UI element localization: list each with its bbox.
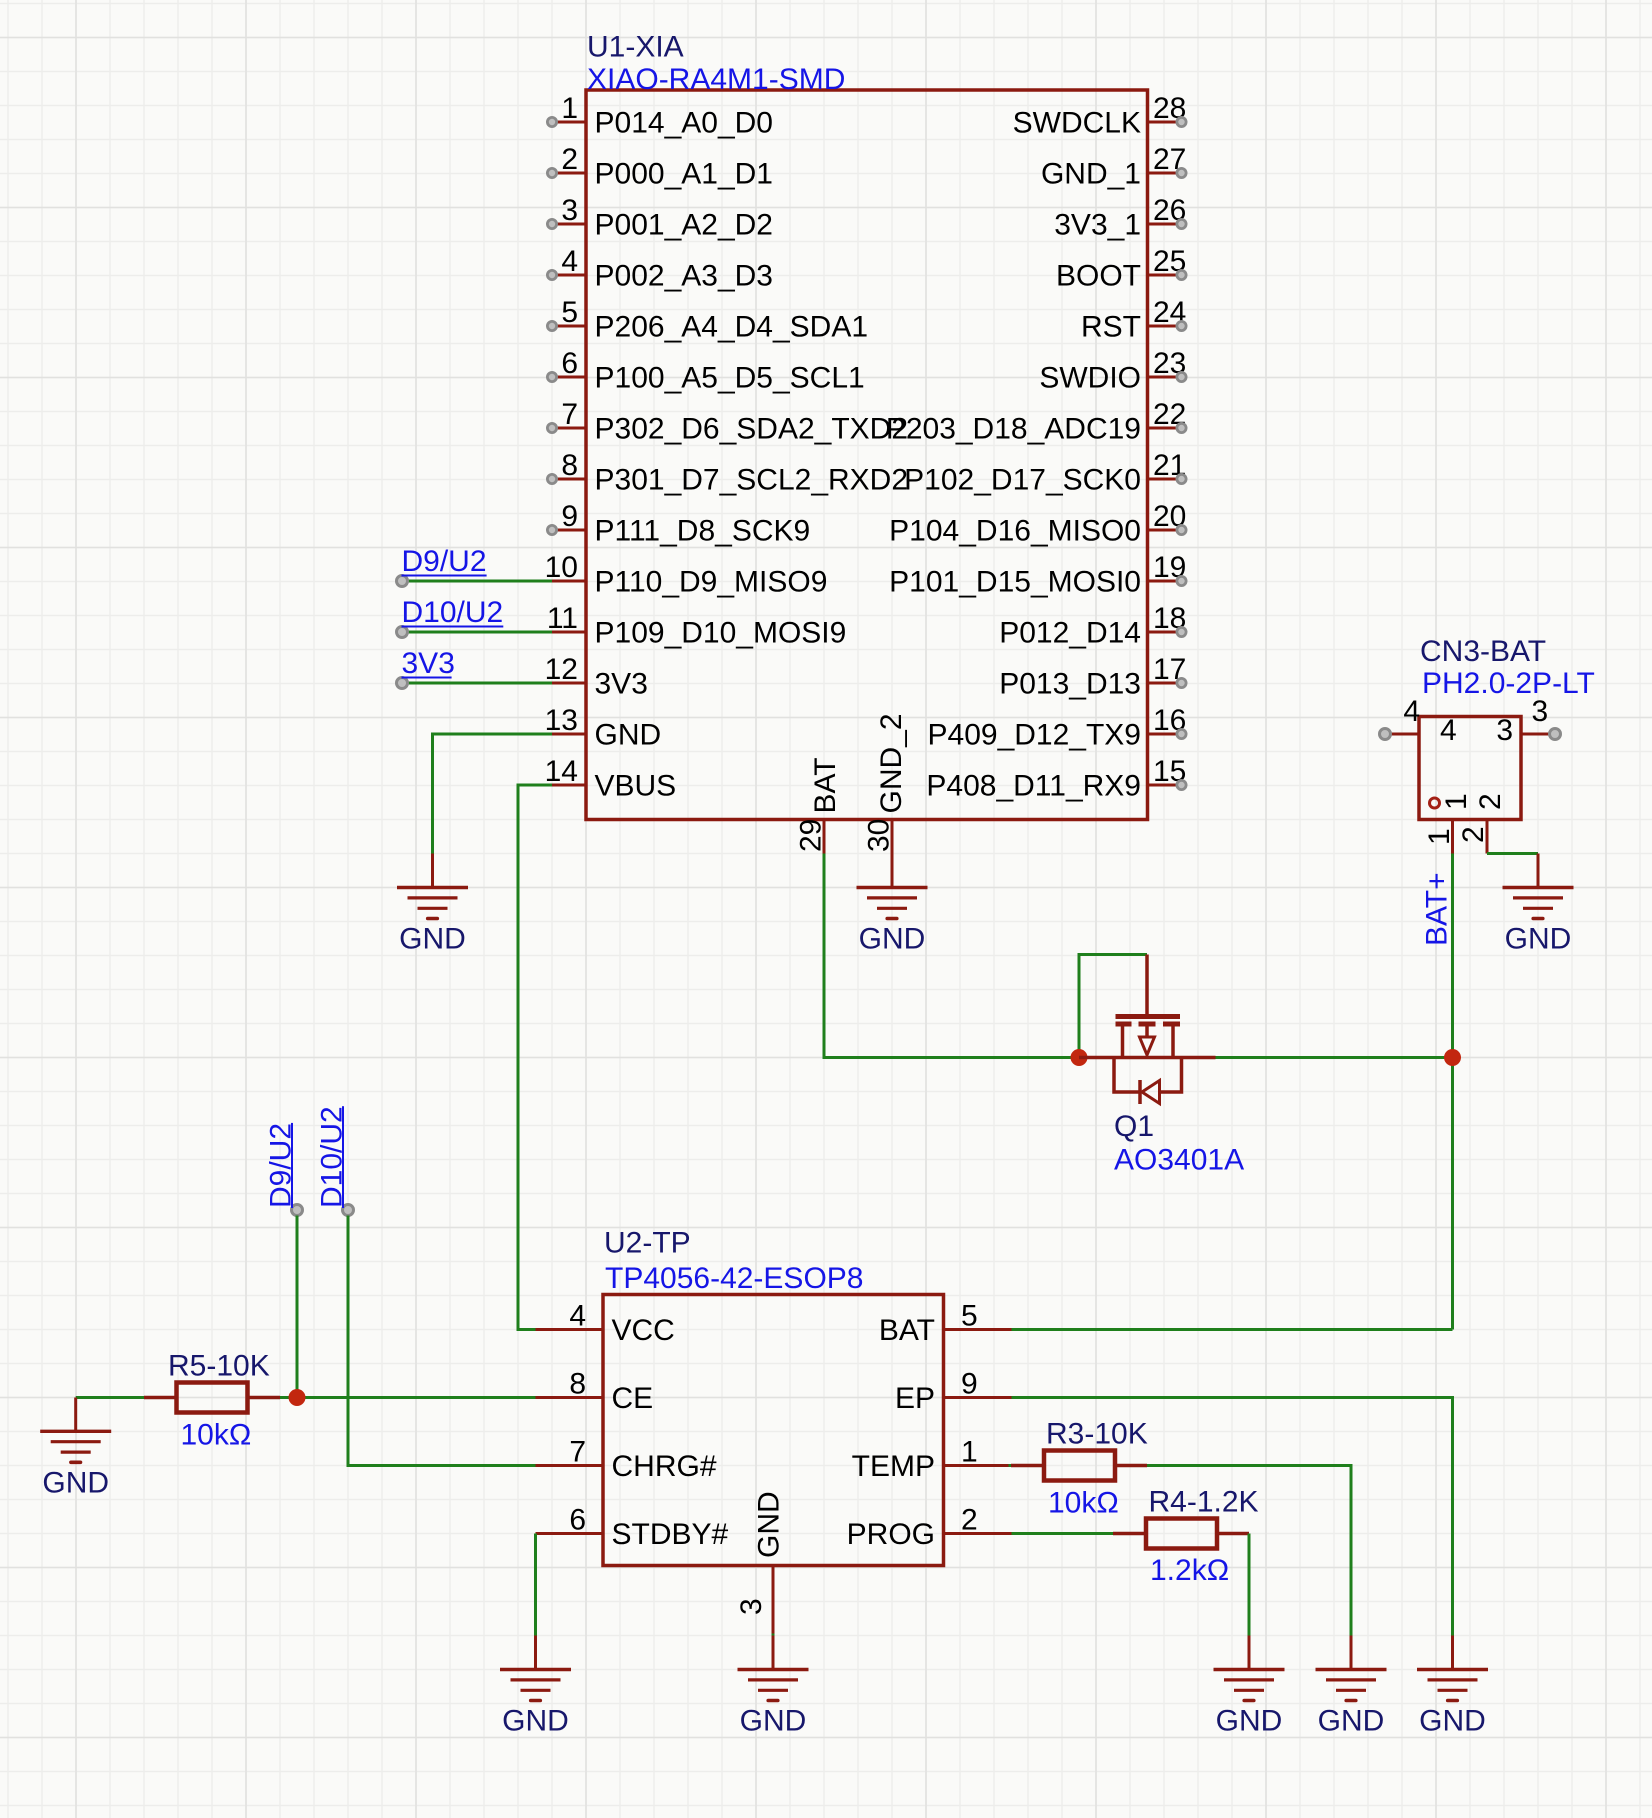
U1 pin 11 (P109_D10_MOSI9) (547, 602, 846, 650)
svg-text:GND: GND (399, 923, 466, 956)
U2 pin 4 (VCC) (536, 1300, 675, 1348)
svg-text:P302_D6_SDA2_TXD2: P302_D6_SDA2_TXD2 (595, 413, 909, 446)
svg-text:2: 2 (561, 143, 578, 176)
net label D10/U2 at U1 pin (397, 596, 553, 638)
svg-text:3V3: 3V3 (595, 668, 648, 701)
svg-text:7: 7 (569, 1436, 586, 1469)
svg-text:STDBY#: STDBY# (612, 1518, 729, 1551)
U1 pin 16 (P409_D12_TX9) (928, 704, 1187, 752)
svg-text:BAT: BAT (809, 757, 842, 813)
ground (U1 pin 13) (397, 854, 468, 956)
svg-text:P001_A2_D2: P001_A2_D2 (595, 209, 773, 242)
wire U2 BAT to BAT+ vertical (1012, 1328, 1453, 1331)
wire Q1 drain to BAT+ node (1216, 1056, 1453, 1059)
IC U1 body (XIAO-RA4M1-SMD) (586, 90, 1148, 820)
svg-text:29: 29 (795, 819, 828, 852)
U1 pin 30 (GND_2) (863, 713, 909, 853)
svg-text:6: 6 (561, 347, 578, 380)
svg-text:P203_D18_ADC19: P203_D18_ADC19 (886, 413, 1141, 446)
svg-text:P012_D14: P012_D14 (999, 617, 1141, 650)
net label D9/U2 (to CE net) (265, 1123, 303, 1398)
svg-text:XIAO-RA4M1-SMD: XIAO-RA4M1-SMD (587, 63, 845, 96)
svg-text:P101_D15_MOSI0: P101_D15_MOSI0 (889, 566, 1141, 599)
svg-text:GND: GND (1419, 1705, 1486, 1738)
svg-text:VBUS: VBUS (595, 770, 677, 803)
svg-text:CE: CE (612, 1382, 654, 1415)
svg-text:P206_A4_D4_SDA1: P206_A4_D4_SDA1 (595, 311, 869, 344)
U1 pin 25 (BOOT) (1056, 245, 1186, 293)
svg-text:D10/U2: D10/U2 (402, 596, 504, 629)
wire BAT+ CN3 pin1 down to U2 BAT (1451, 854, 1454, 1330)
connector CN3 (PH2.0-2P-LT) (1380, 695, 1561, 854)
svg-text:GND: GND (1216, 1705, 1283, 1738)
CN3 part name PH2.0-2P-LT (1422, 667, 1595, 700)
transistor Q1 (AO3401A P-MOSFET) (1079, 955, 1216, 1105)
svg-text:4: 4 (1440, 714, 1457, 747)
U1 pin 19 (P101_D15_MOSI0) (889, 551, 1186, 599)
svg-text:BAT+: BAT+ (1421, 872, 1454, 946)
svg-text:PROG: PROG (847, 1518, 935, 1551)
net label BAT+ (1421, 872, 1454, 946)
resistor R3 (1011, 1451, 1147, 1481)
resistor R5 (144, 1383, 280, 1413)
svg-text:D9/U2: D9/U2 (402, 545, 487, 578)
wire VBUS U1 pin14 to U2 VCC (518, 785, 552, 1330)
R4 designator R4-1.2K (1149, 1486, 1259, 1519)
junction BAT+ node (1444, 1049, 1461, 1066)
svg-text:U2-TP: U2-TP (604, 1227, 691, 1260)
svg-text:PH2.0-2P-LT: PH2.0-2P-LT (1422, 667, 1595, 700)
wire Q1 gate loop (1079, 955, 1147, 1058)
net label D10/U2 (to CHRG# net) (316, 1106, 536, 1465)
Q1 part value AO3401A (1114, 1144, 1244, 1177)
IC U2 body (TP4056-42-ESOP8) (603, 1295, 944, 1566)
svg-text:BAT: BAT (879, 1314, 935, 1347)
junction BAT/Q1 gate node (1071, 1049, 1088, 1066)
svg-text:P111_D8_SCK9: P111_D8_SCK9 (595, 515, 811, 548)
svg-text:9: 9 (561, 500, 578, 533)
svg-text:GND: GND (859, 923, 926, 956)
U1 pin 26 (3V3_1) (1054, 194, 1186, 242)
wire CN3 pin2 to ground (1487, 852, 1538, 855)
U1 pin 7 (P302_D6_SDA2_TXD2) (547, 398, 908, 446)
wire R4 to ground (1248, 1534, 1251, 1636)
U1 pin 9 (P111_D8_SCK9) (547, 500, 810, 548)
U1 pin 2 (P000_A1_D1) (547, 143, 773, 191)
svg-text:2: 2 (1457, 826, 1490, 843)
U1 pin 10 (P110_D9_MISO9) (545, 551, 828, 599)
CN3 reference designator CN3-BAT (1420, 635, 1546, 668)
svg-text:R3-10K: R3-10K (1046, 1418, 1148, 1451)
svg-text:3V3: 3V3 (402, 647, 455, 680)
svg-text:R4-1.2K: R4-1.2K (1149, 1486, 1259, 1519)
svg-text:P000_A1_D1: P000_A1_D1 (595, 158, 773, 191)
svg-text:GND: GND (1505, 923, 1572, 956)
svg-text:7: 7 (561, 398, 578, 431)
wire R3 to ground (1147, 1466, 1351, 1636)
U1 pin 23 (SWDIO) (1039, 347, 1186, 395)
svg-text:P109_D10_MOSI9: P109_D10_MOSI9 (595, 617, 847, 650)
R4 value 1.2kΩ (1150, 1554, 1229, 1587)
svg-text:GND: GND (42, 1466, 109, 1499)
svg-text:14: 14 (545, 755, 578, 788)
U2 pin 8 (CE) (536, 1368, 654, 1416)
U2 pin 1 (TEMP) (852, 1436, 1012, 1484)
svg-text:1.2kΩ: 1.2kΩ (1150, 1554, 1229, 1587)
ground (R4) (1214, 1636, 1285, 1738)
svg-text:4: 4 (1403, 695, 1420, 728)
U1 pin 29 (BAT) (795, 757, 843, 853)
svg-text:2: 2 (961, 1504, 978, 1537)
wire U1 pin13 GND to ground (433, 734, 553, 854)
svg-text:R5-10K: R5-10K (168, 1350, 270, 1383)
svg-text:CHRG#: CHRG# (612, 1450, 717, 1483)
wire R5 to ground corner (76, 1396, 144, 1399)
svg-text:1: 1 (961, 1436, 978, 1469)
U1 pin 5 (P206_A4_D4_SDA1) (547, 296, 868, 344)
U1 pin 8 (P301_D7_SCL2_RXD2) (547, 449, 908, 497)
ground (R3) (1316, 1636, 1387, 1738)
svg-text:P014_A0_D0: P014_A0_D0 (595, 107, 773, 140)
svg-text:4: 4 (569, 1300, 586, 1333)
ground (U1 pin 30) (857, 854, 928, 956)
Q1 reference designator (1114, 1110, 1154, 1143)
U2 pin 3 (GND) (735, 1491, 786, 1637)
R3 value 10kΩ (1048, 1487, 1119, 1520)
svg-text:3V3_1: 3V3_1 (1054, 209, 1141, 242)
resistor R4 (1113, 1519, 1249, 1549)
svg-text:P408_D11_RX9: P408_D11_RX9 (926, 770, 1141, 803)
U1 pin 22 (P203_D18_ADC19) (886, 398, 1187, 446)
U1 pin 1 (P014_A0_D0) (547, 92, 773, 140)
svg-text:P100_A5_D5_SCL1: P100_A5_D5_SCL1 (595, 362, 865, 395)
net label 3V3 at U1 pin (397, 647, 553, 689)
svg-text:GND: GND (595, 719, 662, 752)
svg-text:GND_1: GND_1 (1041, 158, 1141, 191)
ground (U2 pin 3) (738, 1636, 809, 1738)
wire U2 EP to ground (1012, 1398, 1453, 1636)
wire PROG to R4 (1012, 1532, 1114, 1535)
svg-text:P013_D13: P013_D13 (999, 668, 1141, 701)
svg-text:CN3-BAT: CN3-BAT (1420, 635, 1546, 668)
svg-text:P409_D12_TX9: P409_D12_TX9 (928, 719, 1142, 752)
svg-text:GND: GND (1318, 1705, 1385, 1738)
net label D9/U2 at U1 pin (397, 545, 553, 587)
svg-text:3: 3 (1496, 714, 1513, 747)
svg-text:GND: GND (740, 1705, 807, 1738)
svg-text:U1-XIA: U1-XIA (587, 31, 684, 64)
U1 pin 20 (P104_D16_MISO0) (889, 500, 1186, 548)
svg-text:TEMP: TEMP (852, 1450, 935, 1483)
U2 pin 2 (PROG) (847, 1504, 1012, 1552)
svg-text:12: 12 (545, 653, 578, 686)
wire TEMP to R3 (1009, 1464, 1014, 1467)
svg-text:P104_D16_MISO0: P104_D16_MISO0 (889, 515, 1141, 548)
svg-text:AO3401A: AO3401A (1114, 1144, 1244, 1177)
svg-text:2: 2 (1474, 793, 1507, 810)
svg-text:8: 8 (569, 1368, 586, 1401)
svg-text:P110_D9_MISO9: P110_D9_MISO9 (595, 566, 828, 599)
wire R5 to junction (280, 1396, 297, 1399)
ground (R5 left) (40, 1398, 111, 1500)
U1 pin 4 (P002_A3_D3) (547, 245, 773, 293)
R3 designator R3-10K (1046, 1418, 1148, 1451)
svg-text:P002_A3_D3: P002_A3_D3 (595, 260, 773, 293)
svg-text:6: 6 (569, 1504, 586, 1537)
svg-text:10kΩ: 10kΩ (181, 1419, 252, 1452)
U1 pin 21 (P102_D17_SCK0) (904, 449, 1186, 497)
svg-text:1: 1 (1423, 828, 1456, 845)
svg-text:EP: EP (895, 1382, 935, 1415)
U1 reference designator U1-XIA (587, 31, 684, 64)
U1 pin 24 (RST) (1081, 296, 1186, 344)
svg-text:RST: RST (1081, 311, 1141, 344)
U1 pin 12 (3V3) (545, 653, 648, 701)
svg-text:GND: GND (753, 1491, 786, 1558)
U2 pin 7 (CHRG#) (536, 1436, 717, 1484)
U1 pin 28 (SWDCLK) (1013, 92, 1187, 140)
svg-text:GND_2: GND_2 (875, 713, 908, 813)
U2 reference designator U2-TP (604, 1227, 691, 1260)
svg-text:9: 9 (961, 1368, 978, 1401)
U1 part name XIAO-RA4M1-SMD (587, 63, 845, 96)
U2 part name TP4056-42-ESOP8 (605, 1262, 863, 1295)
U2 pin 5 (BAT) (879, 1300, 1012, 1348)
U2 pin 9 (EP) (895, 1368, 1012, 1416)
svg-text:VCC: VCC (612, 1314, 675, 1347)
U1 pin 27 (GND_1) (1041, 143, 1186, 191)
svg-text:BOOT: BOOT (1056, 260, 1141, 293)
U1 pin 15 (P408_D11_RX9) (926, 755, 1186, 803)
svg-text:10: 10 (545, 551, 578, 584)
U2 pin 6 (STDBY#) (536, 1504, 729, 1552)
svg-text:3: 3 (561, 194, 578, 227)
svg-text:P102_D17_SCK0: P102_D17_SCK0 (904, 464, 1141, 497)
U1 pin 6 (P100_A5_D5_SCL1) (547, 347, 864, 395)
svg-text:GND: GND (502, 1705, 569, 1738)
R5 designator R5-10K (168, 1350, 270, 1383)
junction CE node (289, 1389, 306, 1406)
svg-text:SWDCLK: SWDCLK (1013, 107, 1141, 140)
svg-text:30: 30 (863, 819, 896, 852)
svg-text:SWDIO: SWDIO (1039, 362, 1141, 395)
svg-text:P301_D7_SCL2_RXD2: P301_D7_SCL2_RXD2 (595, 464, 909, 497)
svg-text:5: 5 (561, 296, 578, 329)
svg-text:Q1: Q1 (1114, 1110, 1154, 1143)
ground (STDBY#) (500, 1636, 571, 1738)
svg-text:13: 13 (545, 704, 578, 737)
wire U1 pin30 to ground (891, 854, 894, 857)
R5 value 10kΩ (181, 1419, 252, 1452)
svg-text:5: 5 (961, 1300, 978, 1333)
U1 pin 14 (VBUS) (545, 755, 677, 803)
svg-text:TP4056-42-ESOP8: TP4056-42-ESOP8 (605, 1262, 863, 1295)
svg-text:1: 1 (561, 92, 578, 125)
ground (CN3 pin 2) (1503, 854, 1574, 956)
svg-text:3: 3 (735, 1598, 768, 1615)
wire BAT net U1 pin29 to Q1 (824, 854, 1079, 1058)
svg-text:4: 4 (561, 245, 578, 278)
U1 pin 3 (P001_A2_D2) (547, 194, 773, 242)
U1 pin 13 (GND) (545, 704, 662, 752)
U1 pin 18 (P012_D14) (999, 602, 1186, 650)
svg-text:10kΩ: 10kΩ (1048, 1487, 1119, 1520)
svg-text:8: 8 (561, 449, 578, 482)
wire STDBY# to ground (534, 1534, 537, 1636)
svg-text:11: 11 (547, 602, 578, 635)
wire CE net junction to U2 pin8 (297, 1396, 536, 1399)
svg-text:1: 1 (1440, 793, 1473, 810)
U1 pin 17 (P013_D13) (999, 653, 1186, 701)
ground (EP) (1417, 1636, 1488, 1738)
